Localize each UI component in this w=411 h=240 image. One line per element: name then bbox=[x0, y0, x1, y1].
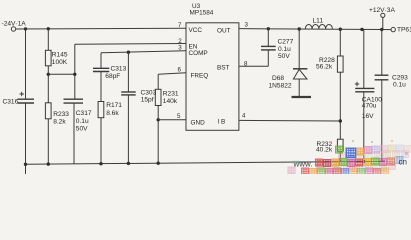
node junction C303 top bbox=[127, 51, 130, 54]
node TP6 terminal bbox=[391, 27, 395, 31]
svg-text:+12V·3A: +12V·3A bbox=[369, 7, 395, 14]
node bus junction R231 bbox=[157, 162, 160, 165]
svg-text:15pf: 15pf bbox=[141, 97, 154, 104]
svg-text:1N5822: 1N5822 bbox=[269, 82, 292, 89]
wire C277 to BST bbox=[267, 50, 269, 66]
node bus junction R171 bbox=[99, 162, 102, 165]
wire FREQ vertical bbox=[157, 74, 159, 89]
node junction D68 bbox=[298, 27, 301, 30]
svg-text:OUT: OUT bbox=[217, 27, 231, 34]
node junction CA100 bbox=[360, 28, 363, 31]
node bus junction C303 bbox=[127, 162, 130, 165]
svg-text:-24V·1A: -24V·1A bbox=[2, 21, 27, 28]
svg-text:cn: cn bbox=[399, 158, 407, 167]
wire C293 upper bbox=[381, 30, 383, 75]
svg-text:L11: L11 bbox=[313, 17, 324, 24]
capacitor C313 bbox=[93, 67, 109, 69]
wire CA100 upper bbox=[363, 29, 365, 88]
svg-text:I B: I B bbox=[218, 119, 226, 126]
ground bbox=[292, 96, 312, 98]
wire OUT rail bbox=[239, 29, 391, 30]
svg-text:7: 7 bbox=[178, 22, 182, 29]
wire BST pin bbox=[239, 65, 268, 67]
node junction divider bbox=[47, 73, 50, 76]
wire GND pin bbox=[158, 119, 186, 121]
resistor R233 body bbox=[45, 103, 51, 119]
wire R232 lower bbox=[339, 151, 341, 161]
capacitor C303 bbox=[121, 91, 136, 93]
svg-text:8.2k: 8.2k bbox=[53, 119, 66, 126]
svg-text:0.1u: 0.1u bbox=[393, 81, 406, 88]
wire C293 lower bbox=[381, 80, 383, 161]
node junction C293 bbox=[380, 28, 383, 31]
capacitor C293 bbox=[375, 74, 389, 76]
wire C303 vertical upper bbox=[127, 52, 129, 91]
wire R233 lower bbox=[47, 119, 49, 164]
wire below bus bbox=[25, 164, 27, 174]
svg-text:3: 3 bbox=[178, 45, 182, 52]
svg-text:FREQ: FREQ bbox=[191, 72, 209, 79]
svg-text:100K: 100K bbox=[52, 59, 68, 66]
capacitor C316 bbox=[18, 98, 35, 100]
node junction EN divider bbox=[73, 73, 76, 76]
wire COMP vertical bbox=[100, 53, 102, 68]
svg-text:56.2k: 56.2k bbox=[316, 64, 333, 71]
wire top rail bbox=[16, 27, 186, 30]
wire FB pin bbox=[239, 119, 340, 122]
wire FREQ horizontal bbox=[158, 73, 186, 75]
wire C313-R171 bbox=[100, 72, 102, 102]
svg-text:TP61: TP61 bbox=[397, 27, 411, 34]
svg-text:C317: C317 bbox=[76, 110, 92, 117]
wire C317 lower bbox=[73, 104, 75, 164]
wire R145 upper bbox=[47, 29, 49, 51]
node bus junction CA100 bbox=[362, 160, 365, 163]
svg-text:R233: R233 bbox=[53, 111, 69, 118]
node junction GND pin bbox=[157, 118, 160, 121]
svg-text:470u: 470u bbox=[362, 103, 377, 110]
svg-text:R231: R231 bbox=[163, 90, 179, 97]
resistor R232 body bbox=[337, 139, 343, 151]
node junction FB bbox=[339, 119, 342, 122]
wire D68 cathode bbox=[298, 29, 300, 69]
node bus junction R233 bbox=[47, 162, 50, 165]
watermark bbox=[288, 140, 411, 175]
capacitor CA100 bbox=[355, 87, 374, 89]
svg-text:4: 4 bbox=[242, 113, 246, 120]
capacitor C277 bbox=[261, 45, 276, 47]
node junction top C316 bbox=[24, 27, 27, 30]
resistor R171 body bbox=[98, 102, 104, 118]
wire CA100 lower bbox=[363, 92, 365, 161]
wire EN horizontal bbox=[75, 43, 186, 46]
resistor R1.45 body bbox=[45, 50, 51, 66]
svg-text:0.1u: 0.1u bbox=[278, 46, 291, 53]
wire R228 upper bbox=[339, 29, 341, 56]
svg-text:0.1u: 0.1u bbox=[76, 118, 89, 125]
svg-text:8: 8 bbox=[244, 60, 248, 67]
wire COMP horizontal bbox=[101, 51, 186, 53]
wire divider link bbox=[48, 73, 75, 75]
capacitor C317 bbox=[64, 98, 84, 100]
svg-text:6: 6 bbox=[178, 66, 182, 73]
svg-text:D68: D68 bbox=[272, 75, 284, 82]
wire C277 upper bbox=[267, 29, 269, 46]
inductor L11 bbox=[305, 25, 332, 29]
resistor R228 body bbox=[337, 56, 343, 72]
wire R171 lower bbox=[100, 118, 102, 164]
node bus junction C316 bbox=[24, 163, 27, 166]
svg-text:C316: C316 bbox=[3, 98, 19, 105]
svg-text:3: 3 bbox=[245, 22, 249, 29]
wire C303 lower bbox=[127, 95, 129, 163]
svg-text:C277: C277 bbox=[278, 38, 294, 45]
node junction R228 bbox=[339, 28, 342, 31]
svg-text:BST: BST bbox=[217, 65, 230, 72]
svg-text:VCC: VCC bbox=[189, 27, 203, 34]
diode D68 bbox=[293, 68, 307, 70]
node junction C277 bbox=[267, 27, 270, 30]
op-amp U3 MP1584 box bbox=[186, 23, 239, 131]
wire D68 anode bbox=[298, 79, 300, 96]
svg-text:8.6k: 8.6k bbox=[106, 110, 119, 117]
node -24V input terminal bbox=[11, 27, 15, 31]
svg-text:C303: C303 bbox=[141, 89, 157, 96]
svg-text:50V: 50V bbox=[278, 53, 290, 60]
resistor R231 body bbox=[155, 89, 161, 105]
svg-text:40.2k: 40.2k bbox=[316, 147, 333, 154]
wire R145-R233 bbox=[47, 66, 49, 103]
svg-text:50V: 50V bbox=[76, 126, 88, 133]
wire C316 lower bbox=[25, 104, 27, 165]
svg-text:16V: 16V bbox=[362, 113, 374, 120]
wire EN vertical bbox=[74, 44, 76, 99]
svg-text:5: 5 bbox=[177, 113, 181, 120]
svg-text:R171: R171 bbox=[106, 102, 122, 109]
svg-text:GND: GND bbox=[191, 120, 206, 127]
node +12V terminal bbox=[381, 13, 385, 17]
wire R228 to FB bbox=[339, 72, 341, 139]
svg-text:R145: R145 bbox=[52, 52, 68, 59]
svg-text:68pF: 68pF bbox=[105, 73, 120, 80]
wire R231 lower bbox=[157, 105, 159, 163]
svg-text:MP1584: MP1584 bbox=[190, 9, 214, 16]
svg-text:COMP: COMP bbox=[189, 50, 208, 57]
node junction top R145 bbox=[47, 27, 50, 30]
svg-text:C313: C313 bbox=[111, 66, 127, 73]
wire C316 branch upper bbox=[25, 29, 27, 99]
wire +12V stub bbox=[382, 17, 384, 29]
svg-text:140k: 140k bbox=[163, 98, 178, 105]
wire ground bus bbox=[26, 161, 386, 164]
